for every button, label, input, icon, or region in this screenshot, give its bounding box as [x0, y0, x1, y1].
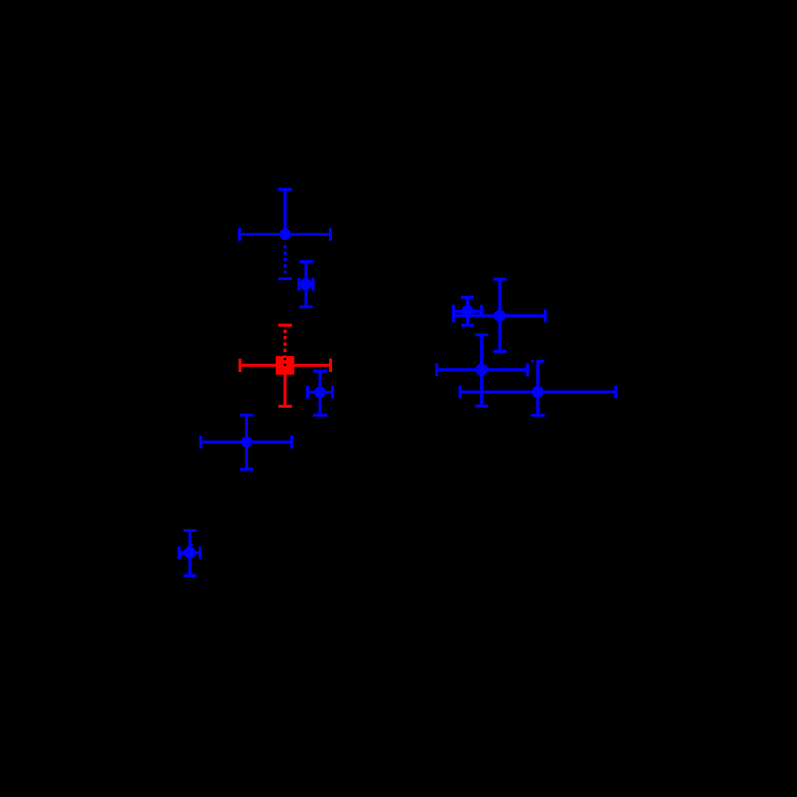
point P9 x-errorbar: [460, 386, 616, 399]
point P7 y-errorbar: [493, 279, 507, 351]
point P5 y-errorbar: [183, 531, 196, 576]
point P9 y-errorbar (dashed top cap): [531, 361, 545, 415]
point P7 x-errorbar: [454, 309, 546, 322]
point R1 (red) square marker: [276, 356, 295, 375]
point P5 x-errorbar: [179, 546, 200, 559]
point R1 (red) lower y-errorbar: [278, 375, 292, 407]
point R1 (red) x-errorbar: [240, 359, 331, 372]
point P3 marker: [314, 386, 326, 398]
point P1 lower y-errorbar (dashed): [278, 245, 292, 279]
point P5 marker: [184, 547, 196, 559]
point P1 x-errorbar: [239, 228, 330, 241]
point P8 y-errorbar: [475, 335, 488, 406]
point P8 marker: [476, 364, 488, 376]
point P7 marker: [494, 310, 506, 322]
point P3 x-errorbar: [307, 386, 332, 399]
point P2 marker: [300, 278, 312, 290]
point P4 y-errorbar: [240, 415, 253, 469]
point P1 marker: [279, 229, 291, 241]
point P3 y-errorbar: [313, 371, 327, 415]
point P6 x-errorbar: [454, 305, 482, 318]
point P6 y-errorbar: [461, 297, 474, 325]
point P2 x-errorbar: [299, 278, 313, 291]
point P8 x-errorbar: [437, 363, 528, 376]
point P2 y-errorbar: [299, 262, 313, 307]
point P1 upper y-errorbar: [278, 189, 292, 234]
point P9 marker: [532, 386, 544, 398]
point R1 dash gaps over marker: [284, 358, 286, 366]
point P4 x-errorbar: [201, 436, 292, 449]
point P5 diagonal slash: [178, 544, 193, 559]
point R1 (red) upper y-errorbar (dashed): [278, 325, 292, 356]
point P4 marker: [241, 436, 252, 447]
point P6 marker: [462, 305, 474, 317]
